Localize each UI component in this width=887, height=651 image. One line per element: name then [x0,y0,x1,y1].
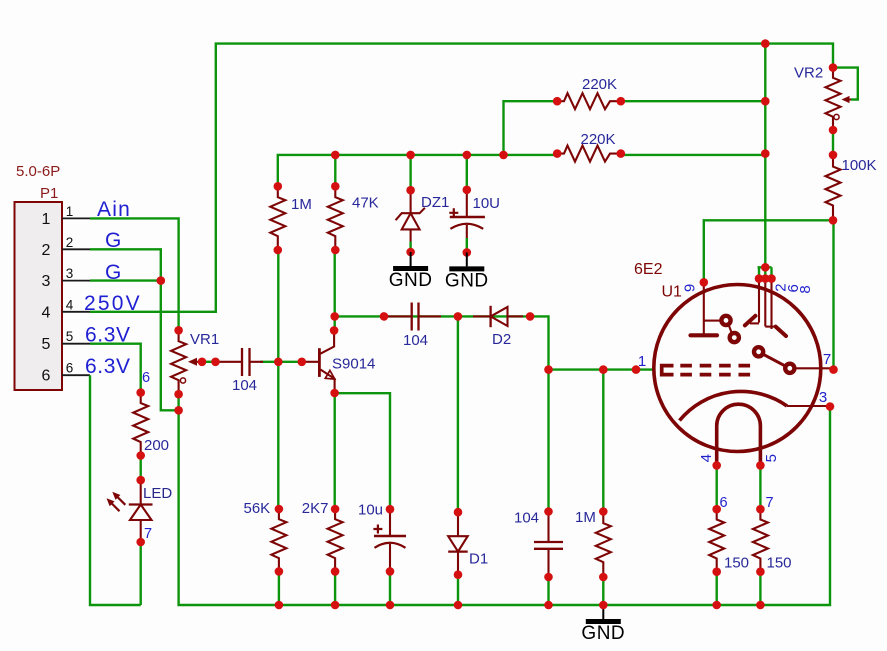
label pin 3 [819,389,827,406]
tube anode plates pins 2 6 8 [745,263,786,336]
wire ground bus from VR1 bottom to tube pin3 [179,394,830,605]
resistor 47K [328,182,343,254]
svg-text:5: 5 [763,454,780,462]
potentiometer VR1 [171,326,206,399]
wire 56K to bus [278,571,280,605]
svg-text:7: 7 [144,526,152,542]
svg-text:3: 3 [42,273,51,290]
label 100K [842,157,877,174]
label 104 input cap [232,377,257,394]
wire C10U bottom stub [466,238,468,252]
svg-text:VR1: VR1 [190,331,219,348]
svg-text:10u: 10u [358,502,383,519]
wire C104b to bus [547,577,549,605]
ground GND bottom [581,605,625,644]
svg-text:6: 6 [142,370,150,386]
label pin 2 [773,283,790,291]
net label G pin2 [105,229,121,252]
svg-text:U1: U1 [662,284,683,301]
junction dot G net [157,276,166,285]
label VR2 [794,65,823,82]
svg-text:104: 104 [514,510,539,527]
svg-text:4: 4 [66,297,74,312]
resistor 220K upper [553,93,625,109]
net label 6.3V pin5 [85,324,131,347]
label 150 right [767,555,792,572]
capacitor 10U electrolytic [449,186,485,257]
label U1 [662,284,683,301]
label 220K upper [582,76,617,93]
LED D3 [107,476,153,546]
wire tube pin4 down [716,465,718,509]
label VR1 [190,331,219,348]
wire G pin2 to VR1 bottom [90,249,179,410]
wire VR2 to 100K [832,130,834,155]
svg-text:P1: P1 [40,185,58,202]
svg-text:1M: 1M [291,196,312,213]
svg-text:S9014: S9014 [332,356,375,373]
tube heater pins 4 5 [712,404,764,470]
svg-text:2K7: 2K7 [302,500,329,517]
svg-text:6: 6 [66,361,74,376]
svg-text:4: 4 [698,454,715,462]
resistor 56K [271,505,286,576]
label 56K [244,500,271,517]
svg-text:8: 8 [797,285,814,293]
wire 47K bottom to Q1 collector [334,250,336,330]
svg-text:9: 9 [682,284,699,292]
tube electrode rings upper [721,316,739,342]
label 10U [473,195,501,212]
resistor 150 right [753,505,768,576]
svg-text:1: 1 [638,353,646,370]
wire LED bottom to rail [139,542,141,605]
ground GND under DZ1 [389,252,433,291]
svg-text:220K: 220K [582,76,617,93]
svg-text:3: 3 [66,266,74,281]
wire 47K top drop [334,155,336,186]
label 1M grid leak [575,509,596,526]
junction dot base bias [274,358,283,367]
svg-text:104: 104 [232,377,257,394]
capacitor 10u emitter bypass [373,505,406,576]
svg-text:4: 4 [42,304,51,321]
svg-text:LED: LED [143,485,172,502]
connector P1 outer pin numbers [66,204,74,376]
svg-text:GND: GND [445,270,489,291]
net label G pin3 [105,261,121,284]
resistor 1M (bias upper) [270,182,285,254]
svg-text:56K: 56K [244,500,271,517]
label 104 grid cap [514,510,539,527]
svg-text:150: 150 [767,555,792,572]
net label 250V [84,292,142,315]
wire 250V pin4 to top bus and VR2 [90,44,833,312]
svg-text:100K: 100K [842,157,877,174]
capacitor 104 input [211,348,263,376]
junction dot collector node [330,312,339,321]
wire 155 bus right section [621,154,766,156]
label 1M [291,196,312,213]
label pin 1 [638,353,646,370]
svg-text:7: 7 [823,351,831,368]
wire Q1 emitter to 2K7 and 10u [335,393,390,509]
label pin 5 [763,454,780,462]
svg-text:VR2: VR2 [794,65,823,82]
connector P1 inner pin numbers [42,211,51,385]
svg-text:7: 7 [766,495,774,511]
tube deflector pin 7 [754,347,838,374]
tube grid pin 1 [632,365,750,374]
wire G pin3 to G net [90,279,161,281]
wire VR1 wiper to C1 [202,361,216,363]
junction dots plate rail 220K [761,97,770,158]
svg-text:D1: D1 [469,551,488,568]
wire tube pin5 down [759,465,761,509]
wire plate rail vertical [764,44,766,268]
resistor 1M grid leak [596,507,611,581]
wire plate rail fan [758,267,772,278]
wire 6.3V pin5 to R200 [90,344,141,393]
svg-text:200: 200 [144,437,169,454]
label DZ1 [421,194,449,211]
label 10u [358,502,383,519]
wire 10u to bus [389,571,391,605]
label 104 detector cap [403,332,428,349]
svg-text:47K: 47K [352,195,379,212]
wire C10U top drop [466,155,468,190]
label LED [143,485,172,502]
capacitor 104 grid filter [534,507,563,581]
label pin 4 [698,454,715,462]
svg-text:6: 6 [42,368,51,385]
svg-text:1M: 1M [575,509,596,526]
label S9014 [332,356,375,373]
svg-text:220K: 220K [581,131,616,148]
junction dot D2 anode node [454,312,463,321]
label 220K lower [581,131,616,148]
connector P1 body [15,202,63,390]
diode D2 [473,306,534,327]
junction dots grid net [544,365,607,374]
svg-text:5.0-6P: 5.0-6P [16,163,60,180]
wire Ain pin1 to VR1 top [90,218,179,330]
svg-text:GND: GND [389,270,433,291]
wire tube grid pin1 net [549,368,654,370]
svg-text:GND: GND [581,623,625,644]
junction dot 155 bus [331,151,508,160]
wire tube pin7 to 100K bottom [832,220,834,369]
label D1 [469,551,488,568]
svg-text:150: 150 [724,555,749,572]
wire 220K upper link [504,101,558,155]
tube target anode pin 3 [680,391,835,420]
label 7 LED pin tag [144,526,152,542]
label 47K [352,195,379,212]
label 150 left [724,555,749,572]
zener diode DZ1 [396,186,425,256]
wire 2K7 to bus [334,571,336,605]
svg-text:10U: 10U [473,195,501,212]
wire VR2 wiper loop [833,68,858,100]
svg-text:1: 1 [66,204,74,219]
resistor 100K [826,151,841,225]
tube cathode pin 9 [691,278,720,335]
label 6E2 [634,261,663,278]
net label Ain [97,198,131,221]
wire R150a to bus [716,572,718,605]
wire collector node to C3 and grid cap [335,316,549,511]
label pin 9 [682,284,699,292]
svg-text:DZ1: DZ1 [421,194,449,211]
label pin 7 [823,351,831,368]
junction dot top bus plate rail [761,39,770,48]
svg-text:5: 5 [66,329,74,344]
wire D2 junction down to D1 [457,316,459,512]
resistor 150 left [709,505,724,576]
resistor 2K7 [328,505,343,576]
svg-text:104: 104 [403,332,428,349]
resistor 220K lower [553,146,625,162]
label 6 heater tag [720,495,728,511]
label D2 [492,331,511,348]
diode D1 [448,508,468,579]
wire 1Mb to bus [602,577,604,605]
label 200 [144,437,169,454]
wire DZ1 bottom stub [409,242,411,253]
svg-text:6E2: 6E2 [634,261,663,278]
svg-text:2: 2 [42,242,51,259]
wire pin9 to 100K bottom [704,220,833,282]
label pin 6 [785,284,802,292]
capacitor 104 detector coupling [380,303,441,331]
wire 220K upper right to plate rail [621,100,766,102]
junction dot VR1 bottom tee [174,406,183,415]
junction dots ground bus [275,601,765,610]
potentiometer VR2 [826,63,852,134]
wire 155 bus left section [278,155,557,186]
svg-text:5: 5 [42,336,51,353]
svg-text:6.3V: 6.3V [85,355,131,378]
label 2K7 [302,500,329,517]
ground GND under 10U [445,252,489,291]
label 5.0-6P [16,163,60,180]
wire grid net to 1M bottom resistor [602,370,604,512]
svg-text:3: 3 [819,389,827,406]
resistor 200 [133,388,148,460]
wire bias divider 1M bottom to 56K top [277,250,279,509]
wire DZ1 top drop [409,155,411,190]
net label 6.3V pin6 [85,355,131,378]
tube U1 6E2 envelope [654,285,821,452]
svg-text:6: 6 [720,495,728,511]
label 7 heater tag [766,495,774,511]
wire D1 to bus [457,575,459,605]
svg-text:1: 1 [42,211,51,228]
wire R200 to LED [139,456,141,481]
wire C1 to Q1 base node [260,361,302,363]
transistor Q1 S9014 [298,326,339,397]
label 6 wire pin6 tag [142,370,150,386]
label pin 8 [797,285,814,293]
svg-text:D2: D2 [492,331,511,348]
label P1 [40,185,58,202]
svg-text:2: 2 [66,235,74,250]
wire R150b to bus [759,572,761,605]
wire 6.3V pin6 to LED cathode rail [90,375,141,605]
connector P1 pin stubs 1-6 [62,218,90,375]
